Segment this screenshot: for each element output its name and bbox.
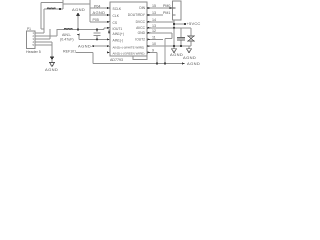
svg-text:15: 15 bbox=[152, 4, 156, 8]
svg-text:Header 5: Header 5 bbox=[26, 50, 41, 54]
svg-text:P1: P1 bbox=[27, 27, 31, 31]
svg-text:(0.47uF): (0.47uF) bbox=[60, 37, 74, 41]
svg-text:13: 13 bbox=[152, 11, 156, 15]
svg-text:CS: CS bbox=[113, 21, 118, 25]
svg-text:IOUT2: IOUT2 bbox=[135, 37, 145, 41]
svg-text:PM0: PM0 bbox=[163, 4, 170, 8]
svg-text:DIN: DIN bbox=[139, 6, 145, 10]
svg-text:AIN1-: AIN1- bbox=[62, 33, 72, 37]
svg-text:11: 11 bbox=[152, 35, 156, 39]
svg-text:10: 10 bbox=[152, 42, 156, 46]
svg-text:PM1: PM1 bbox=[163, 11, 170, 15]
svg-text:+5VCC: +5VCC bbox=[187, 21, 201, 26]
svg-text:P04: P04 bbox=[94, 5, 100, 9]
svg-text:AGND: AGND bbox=[93, 10, 106, 15]
svg-text:AGND: AGND bbox=[183, 55, 196, 60]
svg-text:14: 14 bbox=[152, 18, 156, 22]
svg-text:AGND: AGND bbox=[45, 67, 58, 72]
svg-text:AIN1(+): AIN1(+) bbox=[113, 32, 124, 36]
svg-text:CLK: CLK bbox=[113, 14, 120, 18]
svg-text:AGND: AGND bbox=[170, 52, 183, 57]
svg-text:AD7793: AD7793 bbox=[110, 58, 123, 62]
svg-text:AIN1(-): AIN1(-) bbox=[113, 39, 124, 43]
svg-text:13: 13 bbox=[152, 24, 156, 28]
svg-text:DOUT/RDY: DOUT/RDY bbox=[128, 13, 146, 17]
svg-text:DVCC: DVCC bbox=[136, 20, 146, 24]
svg-text:9: 9 bbox=[152, 48, 154, 52]
svg-text:P05: P05 bbox=[93, 18, 99, 22]
svg-text:AIN2(-)-(GREEN WIRE): AIN2(-)-(GREEN WIRE) bbox=[113, 52, 145, 56]
svg-text:12: 12 bbox=[152, 29, 156, 33]
svg-text:REF101: REF101 bbox=[63, 49, 76, 53]
svg-text:AGND: AGND bbox=[78, 44, 91, 49]
svg-text:AVCC: AVCC bbox=[136, 26, 146, 30]
svg-text:IOUT1: IOUT1 bbox=[113, 27, 123, 31]
svg-text:AIN2(+)-(WHITE WIRE): AIN2(+)-(WHITE WIRE) bbox=[113, 45, 145, 49]
svg-text:SCLK: SCLK bbox=[113, 7, 122, 11]
svg-text:AGND: AGND bbox=[72, 7, 85, 12]
svg-text:AGND: AGND bbox=[187, 61, 200, 66]
svg-text:GND: GND bbox=[138, 31, 146, 35]
